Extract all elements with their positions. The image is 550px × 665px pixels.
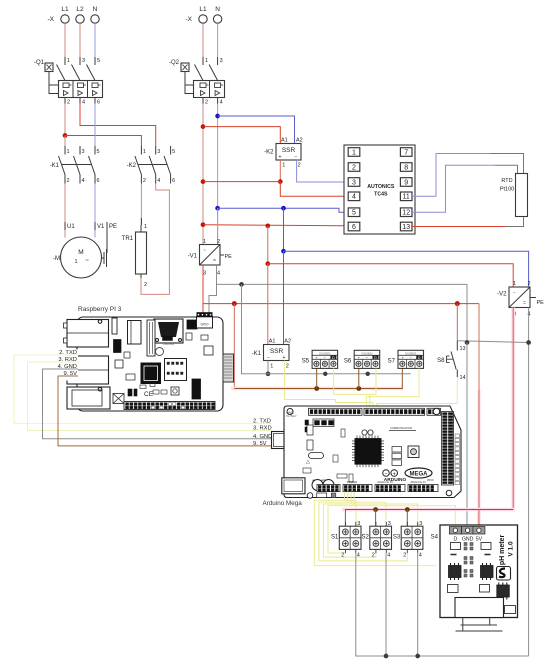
solid state relay K1 [252,339,291,370]
svg-text:~: ~ [85,257,89,264]
svg-text:D: D [374,356,377,360]
wire junction to K2 pin1 [65,136,141,147]
svg-text:1: 1 [203,239,206,245]
svg-text:4: 4 [220,100,223,106]
wire N to V2 pin2 [283,208,285,251]
wire scale bus 1 (S1) [314,492,436,566]
svg-text:+: + [279,155,282,161]
svg-text:COMMUNICATION: COMMUNICATION [390,426,412,430]
wire L1 to SSR K2 pin1 [203,181,280,183]
svg-text:-K1: -K1 [50,163,60,169]
svg-text:S6: S6 [344,359,352,365]
wire Q2 feed L1 [202,45,204,57]
svg-text:IN ITALY: IN ITALY [287,414,297,418]
svg-text:V1: V1 [97,224,105,230]
svg-text:RTD: RTD [501,178,512,184]
svg-text:POWER: POWER [347,480,358,484]
wire L1 to TC4S 6 [203,225,344,226]
wire pH data bus [328,492,455,554]
node GB2 [415,654,420,659]
svg-text:S5: S5 [302,359,310,365]
wire TC4S 13 to RTD [412,217,524,227]
wire Q2 pin4 down (N branch) [217,104,219,245]
Arduino Mega board [253,406,461,507]
solid state relay K2 [264,138,303,169]
RTD Pt100 sensor [500,174,528,217]
node SSR1 [278,179,283,184]
wire Q1 pin6 to K1 pin5 [94,104,96,147]
wire K1 pin2 to motor U1 [65,184,75,238]
node L1e [265,223,270,228]
wire K1 pin6 to motor V1 [95,184,105,238]
wire TC4S 11 to RTD [412,154,524,197]
svg-text:3: 3 [157,149,160,155]
svg-text:V 1.0: V 1.0 [508,541,515,557]
wire DC+ down right [477,304,480,510]
wire N to V1 pin2 [217,208,219,244]
wire S5 data to Arduino [334,368,376,411]
svg-text:3: 3 [82,149,85,155]
node S5V2 [356,386,361,391]
svg-text:13: 13 [460,346,466,352]
svg-text:A2: A2 [296,138,303,144]
wire V1 DC+ rail [203,303,479,305]
wire V2 pin3 5V down [511,308,515,510]
terminal strip -X (L1 L2 N) [48,6,100,23]
svg-text:U1: U1 [67,224,75,230]
wire S1 gnd down [356,553,529,656]
wire SSR K2 pin2 to TC4S 3 [297,160,344,182]
svg-text:5V: 5V [476,537,483,543]
svg-text:4: 4 [419,553,422,559]
power supply V1 [188,239,233,277]
svg-text:3: 3 [357,521,360,527]
load cell connector S2 [361,521,391,559]
svg-text:M: M [78,249,83,256]
svg-text:Pt100: Pt100 [500,187,514,193]
svg-text:S2: S2 [361,535,369,541]
svg-text:5: 5 [97,149,100,155]
svg-text:2: 2 [143,178,146,184]
wire V1 pin4 ground rail [209,265,467,343]
svg-text:3: 3 [220,58,223,64]
contactor K1 [50,146,100,184]
svg-text:PE: PE [225,254,233,260]
svg-text:GPIO: GPIO [201,323,209,327]
wire Q2 feed N [217,45,219,57]
svg-text:N: N [215,6,220,13]
svg-text:2. TXD: 2. TXD [253,418,271,424]
power supply V2 [497,281,544,318]
wire 5V bus bottom [342,510,515,527]
svg-text:3. RXD: 3. RXD [253,426,272,432]
svg-text:ANALOG IN: ANALOG IN [377,480,392,484]
node GND4 [266,371,271,376]
svg-text:−: − [384,472,387,478]
svg-text:SSR: SSR [282,147,296,154]
svg-text:A1: A1 [281,138,288,144]
svg-text:12: 12 [402,210,410,217]
svg-text:4: 4 [157,178,160,184]
svg-text:4: 4 [82,178,85,184]
svg-text:11: 11 [403,194,410,201]
RPi serial labels TXD RXD GND 5V [47,350,78,381]
svg-text:D: D [418,356,421,360]
wire RPi RXD left loop [28,362,272,431]
svg-text:S7: S7 [388,359,396,365]
wire V2 pin4 ground down [528,308,530,657]
svg-text:3: 3 [352,179,356,186]
svg-text:-X: -X [186,16,193,23]
svg-text:6: 6 [172,178,175,184]
svg-text:PE: PE [537,300,545,306]
svg-text:2: 2 [403,553,406,559]
svg-text:1: 1 [282,163,285,169]
svg-text:1: 1 [513,281,516,287]
svg-text:2: 2 [298,163,301,169]
svg-text:1: 1 [67,58,70,64]
svg-text:2: 2 [372,553,375,559]
node N2 [215,206,220,211]
wire L1 to Q1 pin1 [64,23,66,63]
svg-text:2: 2 [352,164,356,171]
wire L1 to V2 pin1 [268,264,513,287]
svg-text:=: = [523,301,526,307]
motor M [53,237,102,278]
wire 5V stub S5 [316,368,318,388]
wire K2 pin2 to TR1 pin1 [141,184,147,231]
svg-text:TR1: TR1 [122,236,134,242]
node B2 [405,507,410,512]
svg-text:-K2: -K2 [264,150,274,156]
wire sensor 5V bus [231,368,403,388]
svg-text:A1: A1 [269,339,276,345]
svg-text:PE: PE [109,224,117,230]
wire scale bus 2 (S2) [319,492,407,561]
node N1 [215,114,220,119]
wire junction to K1 pin1 [64,136,66,147]
svg-text:=: = [213,258,216,264]
svg-text:4: 4 [387,553,390,559]
svg-text:6: 6 [97,178,100,184]
svg-text:5: 5 [97,58,100,64]
node S5V1 [314,386,319,391]
svg-text:L1: L1 [61,6,69,13]
svg-text:2: 2 [67,178,70,184]
transformer TR1 [122,225,147,278]
svg-text:S4: S4 [431,535,439,541]
wire N rail to V2 pin2 [284,251,529,287]
svg-text:33I03WH: 33I03WH [163,342,174,346]
svg-text:ANALOG IN: ANALOG IN [410,480,425,484]
svg-text:-Q1: -Q1 [34,60,45,66]
node L1c [201,179,206,184]
load cell connector S1 [331,521,361,559]
svg-text:4: 4 [352,194,356,201]
svg-text:5: 5 [172,149,175,155]
wire L1 to SSR K2 A1 [203,127,280,144]
wire N down to SSR K1 A2 [283,251,285,344]
svg-text:4: 4 [217,271,220,277]
node B1 [373,507,378,512]
temperature sensor S5 [302,350,338,368]
svg-text:A2: A2 [284,339,291,345]
wire Q1 pin2 down to junction [64,104,66,136]
svg-text:3: 3 [82,58,85,64]
svg-text:4: 4 [82,100,85,106]
wire N to Q1 pin5 [94,23,96,63]
pH meter board S4 [431,525,518,618]
Raspberry Pi 3 board [64,306,234,411]
svg-text:13: 13 [402,224,410,231]
svg-text:L2: L2 [76,6,84,13]
node DC1 [232,301,237,306]
svg-text:2: 2 [144,282,147,288]
svg-text:-V2: -V2 [497,292,507,298]
svg-text:Raspberry PI 3: Raspberry PI 3 [78,306,122,313]
wire L2 to Q1 pin3 [79,23,81,63]
svg-text:-K1: -K1 [252,351,262,357]
svg-text:9: 9 [404,179,408,186]
svg-text:-K2: -K2 [127,163,137,169]
wire S7 data to Arduino [366,368,419,411]
node L1b [201,124,206,129]
node DC2 [455,301,460,306]
svg-text:D: D [332,356,335,360]
circuit breaker Q2 [169,57,225,106]
wire 5V stub S2 [375,510,377,527]
svg-text:CE: CE [144,391,154,398]
svg-text:3: 3 [419,521,422,527]
svg-text:-V1: -V1 [188,254,198,260]
node GB1 [384,654,389,659]
wire L1 down to SSR K1 A1 [267,264,269,345]
temperature controller U2 AUTONICS TC4S [344,145,415,234]
svg-text:1: 1 [143,149,146,155]
wire gnd to sensors minus [268,373,411,375]
wire N to SSR K2 A2 [218,116,295,144]
svg-text:6: 6 [352,224,356,231]
wire S8 pin14 yellow to Arduino [377,377,458,411]
wire SSR K2 pin1 to TC4S 4 [280,182,343,197]
wire 5V stub S6 [358,368,360,388]
circuit breaker Q1 [34,57,103,106]
svg-text:4. GND: 4. GND [253,434,272,440]
wire L1 rail to V2 pin1 [267,226,269,264]
svg-text:5: 5 [352,210,356,217]
wire DC+ down to S8 [456,304,458,341]
temperature sensor S6 [344,350,380,368]
svg-text:2560: 2560 [427,478,434,482]
wire DC+ down to sensor supply [233,304,235,389]
svg-text:3: 3 [388,521,391,527]
svg-text:SSR: SSR [270,348,284,355]
svg-text:1: 1 [205,58,208,64]
svg-text:-X: -X [48,16,55,23]
switch S8 [437,341,465,381]
svg-text:N: N [93,6,98,13]
wire scale bus 3 (S3) [323,492,417,558]
svg-text:−: − [295,155,298,161]
pH electrode symbol [456,618,503,632]
wire gnd to S8 contact 13 [457,341,528,343]
node GND6 [366,372,370,376]
svg-text:9. 5V: 9. 5V [253,441,267,447]
svg-text:2: 2 [205,100,208,106]
wire gnd down to pH GND [466,343,468,527]
svg-text:1: 1 [67,149,70,155]
svg-text:~: ~ [203,248,206,254]
svg-text:D: D [454,537,458,543]
svg-text:6: 6 [97,100,100,106]
svg-text:1: 1 [352,149,356,156]
wire RPi GND left loop [43,369,272,439]
svg-text:L1: L1 [199,6,207,13]
svg-text:-Q2: -Q2 [169,60,180,66]
wire S2 gnd down [385,553,387,656]
wire V1 pin3 to RPi power [202,265,204,317]
wire TC4S 12 to RTD [412,165,518,212]
svg-text:1: 1 [74,259,77,265]
svg-text:7: 7 [404,149,408,156]
terminal strip -X2 (L1 N) [186,6,222,45]
svg-text:1: 1 [144,224,147,230]
svg-text:Arduino Mega: Arduino Mega [263,500,303,507]
contactor K2 [127,146,176,184]
wire PE stub at motor [101,222,117,267]
svg-text:-M: -M [53,256,60,262]
svg-text:2: 2 [341,553,344,559]
node L1a junction [63,133,68,138]
node L1f [265,261,270,266]
svg-text:8: 8 [404,164,408,171]
svg-text:2: 2 [217,239,220,245]
wire SSR K2 pin1 down [279,160,281,182]
node L1d [201,222,206,227]
wire N to TC4S 5 [218,208,344,212]
node GND2 [465,340,470,345]
svg-text:GND: GND [462,537,474,543]
svg-text:AUTONICS: AUTONICS [367,184,395,190]
svg-text:+: + [283,355,286,361]
wire RPi TXD left loop [14,355,272,423]
wire SSR K1 pin2 yellow to Arduino [285,361,374,412]
svg-text:MEGA: MEGA [410,472,429,478]
node N3 [281,206,286,211]
svg-text:1: 1 [270,364,273,370]
svg-text:pH meter: pH meter [499,535,506,566]
wire 5V stub S3 [406,510,408,527]
wire Q2 pin2 down (L1 branch) [202,104,204,245]
svg-text:2: 2 [67,100,70,106]
svg-text:−: − [513,291,516,297]
svg-text:−: − [267,355,270,361]
node N4 [281,249,286,254]
wire Q1 pin4 to K2 pin3 [80,104,156,147]
svg-text:14: 14 [460,375,466,381]
node GND3 [526,340,531,345]
svg-text:S8: S8 [437,358,445,364]
svg-text:S3: S3 [393,535,401,541]
load cell connector S3 [393,521,423,559]
node GND1 [239,282,244,287]
svg-text:+: + [393,472,396,478]
svg-text:△: △ [306,459,310,465]
svg-text:4: 4 [357,553,360,559]
svg-text:TC4S: TC4S [374,192,388,198]
svg-text:2: 2 [286,364,289,370]
wire RPi 5V left loop [58,376,272,446]
svg-text:2: 2 [527,281,530,287]
wire S3 gnd down [417,553,419,656]
wire SSR K1 pin1 to gnd [267,361,269,374]
node GND5 [323,372,327,376]
temperature sensor S7 [388,350,424,368]
svg-text:MADE: MADE [287,411,295,415]
svg-text:S1: S1 [331,535,339,541]
wire K2 pin4 to TR1 pin2 [141,184,169,295]
wire gnd loop to V1 pin4 rail [242,284,269,373]
